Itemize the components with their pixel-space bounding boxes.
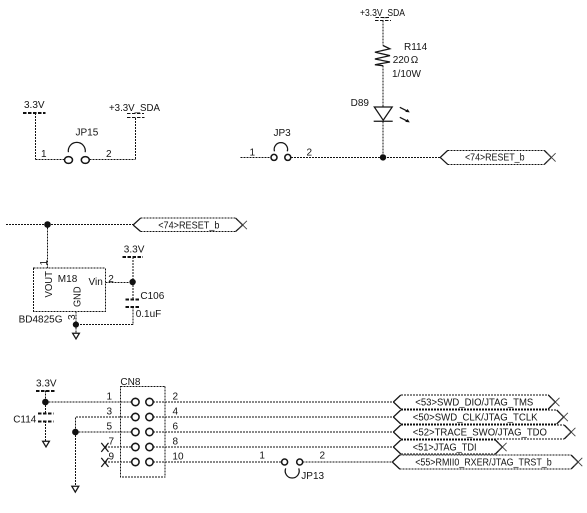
svg-text:1: 1 [259, 451, 265, 462]
resistor R114 [375, 42, 428, 80]
jumper JP13 [282, 459, 325, 482]
wire CN8 pin2 to flag [153, 401, 393, 403]
svg-text:3.3V: 3.3V [36, 379, 57, 390]
svg-text:1: 1 [39, 260, 50, 266]
ground (C114) [43, 441, 50, 447]
svg-text:8: 8 [173, 437, 179, 448]
svg-text:R114: R114 [404, 42, 428, 53]
net flag <74>RESET_b (top-right) [440, 151, 555, 165]
no-connect X pin7 [101, 443, 108, 452]
capacitor C106 [125, 291, 164, 320]
svg-text:GND: GND [73, 287, 84, 308]
wire to JP15 pin1 [35, 159, 64, 161]
power 3.3V (top-left) [23, 100, 45, 113]
wire +3.3V_SDA to R114 [382, 21, 384, 46]
svg-text:<55>RMII0_RXER/JTAG_TRST_b: <55>RMII0_RXER/JTAG_TRST_b [415, 458, 552, 469]
svg-text:1: 1 [107, 392, 113, 403]
wire junction to C114 [44, 402, 46, 413]
wire RESET_b row (middle) [6, 224, 133, 226]
wire CN8 pin10 to JP13 [153, 461, 282, 463]
svg-text:1/10W: 1/10W [392, 69, 421, 80]
svg-text:<74>RESET_b: <74>RESET_b [465, 153, 525, 164]
net flag <51>JTAG_TDI [393, 440, 506, 454]
svg-text:10: 10 [172, 452, 184, 463]
svg-text:Vin: Vin [89, 277, 103, 288]
svg-text:JP15: JP15 [76, 127, 99, 138]
svg-text:9: 9 [109, 452, 115, 463]
wire JP15 pin2 to +3.3V_SDA stem [89, 159, 135, 161]
junction dot (middle row) [44, 221, 51, 228]
svg-text:M18: M18 [58, 274, 78, 285]
wire CN8 pin3 [75, 417, 131, 432]
svg-text:BD4825G: BD4825G [19, 315, 63, 326]
junction dot Vin [129, 279, 135, 285]
wire C114 to ground [44, 421, 46, 441]
wire JP13 pin2 to flag [303, 461, 393, 463]
jumper JP15 [65, 127, 99, 163]
svg-text:2: 2 [320, 451, 326, 462]
wire CN8 pin6 to flag [153, 431, 393, 433]
LED D89 [351, 98, 410, 122]
svg-text:JP13: JP13 [301, 471, 324, 482]
wire CN8 pin8 to flag [153, 446, 393, 448]
wire junction to C106 [132, 282, 134, 299]
svg-text:<52>TRACE_SWO/JTAG_TDO: <52>TRACE_SWO/JTAG_TDO [413, 428, 547, 439]
svg-text:2: 2 [307, 148, 313, 159]
svg-text:D89: D89 [351, 98, 370, 109]
regulator U M18 BD4825G [19, 268, 106, 326]
power +3.3V_SDA (top-right) [360, 8, 405, 21]
net flag <53>SWD_DIO/JTAG_TMS [393, 395, 559, 409]
junction dot 3.3V/C114 [42, 399, 49, 406]
svg-text:3.3V: 3.3V [124, 245, 145, 256]
net flag <55>RMII0_RXER/JTAG_TRST_b [392, 455, 582, 469]
ground (CN8) [72, 486, 79, 492]
svg-text:JP3: JP3 [274, 128, 292, 139]
svg-text:3.3V: 3.3V [24, 100, 45, 111]
svg-text:2: 2 [106, 149, 112, 160]
net flag <74>RESET_b (middle) [133, 218, 247, 231]
wire CN8 pin7 stub [105, 446, 132, 448]
svg-text:2: 2 [108, 274, 114, 285]
svg-text:1: 1 [250, 148, 256, 159]
capacitor C114 [13, 414, 53, 426]
wire CN8 pin4 to flag [153, 416, 393, 418]
svg-text:+3.3V_SDA: +3.3V_SDA [109, 103, 160, 114]
svg-text:<50>SWD_CLK/JTAG_TCLK: <50>SWD_CLK/JTAG_TCLK [413, 413, 538, 424]
junction dot GND [73, 322, 79, 328]
wire C106 to gnd row [76, 306, 133, 324]
svg-text:C106: C106 [140, 291, 164, 302]
wire CN8 pin5 [75, 431, 131, 433]
svg-text:4: 4 [173, 407, 179, 418]
wire junction to regulator pin1 [46, 225, 48, 268]
wire 3.3V stem to JP15 row [34, 113, 36, 160]
wire regulator GND pin3 [75, 311, 77, 324]
svg-text:7: 7 [109, 437, 115, 448]
svg-text:220: 220 [393, 55, 410, 66]
junction dot pin5 [72, 429, 79, 436]
wire pin5 junction to ground [74, 432, 76, 486]
svg-text:2: 2 [173, 392, 179, 403]
svg-text:6: 6 [173, 422, 179, 433]
wire 3.3V to CN8 pin1 [45, 401, 131, 403]
wire R114 to D89 [382, 66, 384, 107]
svg-text:3: 3 [107, 407, 113, 418]
jumper JP3 [271, 128, 291, 160]
no-connect X pin9 [101, 458, 108, 467]
svg-text:<74>RESET_b: <74>RESET_b [158, 221, 220, 232]
svg-text:0.1uF: 0.1uF [136, 309, 162, 320]
wire D89 to junction [382, 121, 384, 157]
power 3.3V (middle) [122, 245, 144, 283]
wire regulator Vin to junction [105, 281, 132, 283]
junction dot D89/JP3 net [380, 154, 386, 160]
wire CN8 pin9 stub [105, 461, 132, 463]
connector CN8 [120, 377, 165, 477]
power +3.3V_SDA (top-left) [109, 103, 160, 160]
net flag <50>SWD_CLK/JTAG_TCLK [393, 410, 568, 424]
ground (regulator) [73, 325, 80, 339]
wire JP3 row left stub [240, 156, 271, 158]
svg-text:Ω: Ω [411, 55, 419, 66]
svg-text:<53>SWD_DIO/JTAG_TMS: <53>SWD_DIO/JTAG_TMS [415, 398, 533, 409]
power 3.3V (bottom) [36, 379, 57, 402]
svg-text:VOUT: VOUT [44, 271, 55, 298]
svg-text:1: 1 [41, 149, 47, 160]
svg-text:C114: C114 [13, 415, 37, 426]
svg-text:5: 5 [107, 422, 113, 433]
wire JP3 pin2 to junction to flag [291, 156, 440, 158]
svg-text:<51>JTAG_TDI: <51>JTAG_TDI [413, 443, 477, 454]
net flag <52>TRACE_SWO/JTAG_TDO [393, 425, 575, 439]
